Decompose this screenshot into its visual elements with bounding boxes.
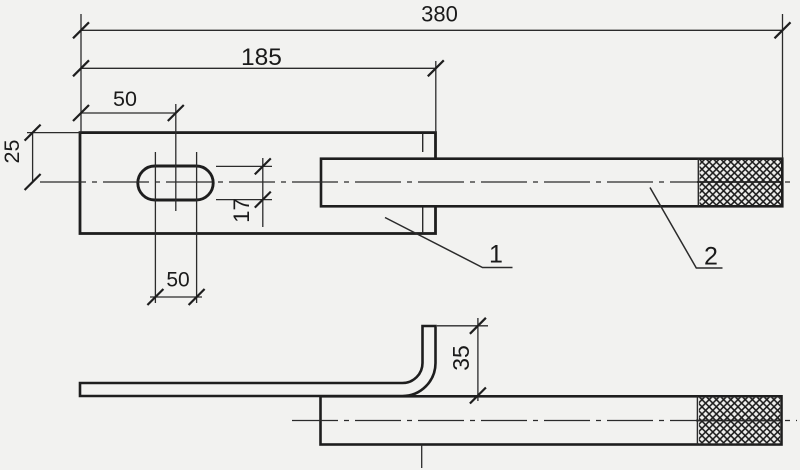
svg-text:50: 50 — [113, 87, 137, 111]
tick 380 right — [775, 22, 791, 38]
extension line 25 top — [27, 132, 80, 134]
extension line 50 top — [175, 104, 177, 211]
tick 50 top right — [168, 105, 184, 121]
tick 35 bottom — [470, 388, 486, 404]
tick 50 bottom left — [147, 289, 163, 305]
extension line 35 top — [437, 325, 488, 327]
centreline top view — [40, 181, 795, 183]
rod item 2 body (top view) — [321, 159, 782, 207]
tick 50 top left — [73, 105, 89, 121]
extension mark below bottom rod — [421, 445, 423, 469]
centreline bottom view — [292, 420, 797, 422]
tick 17 top — [255, 158, 271, 174]
tick 35 top — [470, 318, 486, 334]
knurled end of rod (bottom view) — [696, 396, 782, 444]
svg-text:35: 35 — [448, 345, 474, 371]
extension line 185 — [435, 61, 437, 133]
knurled end of rod (top view) — [697, 159, 783, 207]
svg-text:50: 50 — [166, 269, 189, 292]
dimension 17 line — [262, 158, 264, 227]
dimension 185 line — [81, 67, 436, 69]
svg-text:1: 1 — [489, 241, 503, 269]
tick 50 bottom right — [189, 289, 205, 305]
extension lines 17 — [216, 166, 272, 199]
plate item 1 outline (top view) — [80, 133, 436, 234]
leader line item 2 — [650, 188, 723, 269]
dimension 50 top line — [81, 112, 176, 114]
dimension 35 line — [477, 318, 479, 401]
tick 380 left — [73, 22, 89, 38]
svg-text:17: 17 — [229, 198, 254, 222]
slot arc centre extension lines — [155, 152, 196, 303]
tick 185 right — [428, 60, 444, 76]
extension line left (380/185/50) — [80, 14, 82, 133]
extension line right 380 — [782, 14, 784, 159]
slot in plate — [138, 166, 213, 200]
tick 17 bottom — [255, 192, 271, 208]
bent strip item 1 (bottom view) — [80, 326, 436, 396]
dimension 50 bottom line — [150, 296, 202, 298]
dimension 380 line — [81, 29, 783, 31]
svg-text:25: 25 — [0, 140, 24, 164]
tick 25 top — [25, 125, 41, 141]
svg-text:2: 2 — [704, 243, 718, 271]
svg-text:185: 185 — [241, 44, 282, 71]
bend tangent line on plate (top view) — [422, 134, 424, 234]
rod item 2 body (bottom view) — [321, 396, 782, 444]
svg-text:380: 380 — [421, 2, 458, 27]
tick 25 bottom — [25, 174, 41, 190]
dimension 25 line — [32, 133, 34, 182]
leader line item 1 — [385, 218, 513, 268]
tick 185 left — [73, 60, 89, 76]
